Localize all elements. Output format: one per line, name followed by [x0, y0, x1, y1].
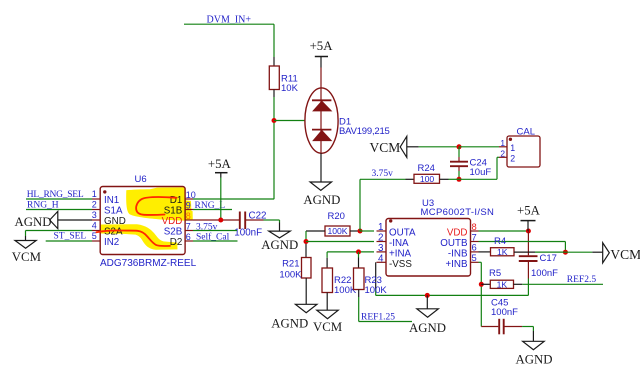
svg-text:GND: GND	[104, 216, 126, 227]
svg-text:+INA: +INA	[389, 248, 412, 259]
svg-text:S1B: S1B	[164, 205, 183, 216]
svg-text:D2: D2	[170, 237, 183, 248]
svg-text:AGND: AGND	[261, 238, 298, 252]
svg-text:-INB: -INB	[448, 248, 468, 259]
svg-text:U6: U6	[135, 174, 147, 185]
svg-text:R20: R20	[328, 211, 345, 222]
svg-text:4: 4	[378, 253, 384, 264]
svg-text:VCM: VCM	[370, 140, 401, 155]
svg-text:100nF: 100nF	[491, 307, 518, 318]
svg-text:1: 1	[510, 143, 515, 153]
svg-text:8: 8	[186, 211, 191, 221]
svg-text:100nF: 100nF	[531, 268, 558, 279]
svg-text:10uF: 10uF	[470, 167, 492, 178]
svg-text:6: 6	[472, 242, 477, 253]
svg-text:VCM: VCM	[313, 320, 342, 334]
svg-text:8: 8	[472, 221, 477, 232]
svg-text:3: 3	[378, 243, 384, 254]
svg-text:2: 2	[500, 149, 505, 159]
svg-text:3: 3	[92, 210, 97, 220]
svg-text:AGND: AGND	[409, 321, 446, 335]
svg-text:1: 1	[92, 189, 97, 199]
svg-text:R5: R5	[489, 268, 501, 279]
svg-text:100K: 100K	[279, 270, 302, 281]
svg-text:2: 2	[378, 233, 383, 244]
svg-text:S2A: S2A	[104, 226, 123, 237]
svg-text:10K: 10K	[281, 83, 299, 94]
svg-text:1: 1	[378, 222, 383, 233]
svg-text:VDD: VDD	[447, 228, 468, 239]
svg-text:REF2.5: REF2.5	[567, 275, 597, 285]
svg-text:-VSS: -VSS	[389, 259, 412, 270]
svg-text:AGND: AGND	[303, 193, 340, 207]
svg-text:BAV199,215: BAV199,215	[339, 126, 390, 137]
svg-text:+5A: +5A	[517, 203, 541, 217]
svg-text:4: 4	[92, 220, 97, 230]
svg-text:IN2: IN2	[104, 237, 119, 248]
svg-text:IN1: IN1	[104, 195, 119, 206]
svg-text:5: 5	[472, 252, 477, 263]
svg-text:1K: 1K	[497, 247, 508, 257]
svg-text:100K: 100K	[365, 285, 388, 296]
svg-text:R4: R4	[494, 236, 506, 247]
svg-text:ST_SEL: ST_SEL	[54, 232, 87, 242]
svg-text:D1: D1	[170, 195, 183, 206]
svg-text:C17: C17	[540, 253, 557, 264]
svg-text:+INB: +INB	[445, 259, 468, 270]
svg-text:VDD: VDD	[162, 216, 183, 227]
svg-text:100: 100	[420, 174, 435, 184]
svg-text:6: 6	[186, 232, 191, 242]
svg-text:VCM: VCM	[12, 250, 41, 264]
svg-text:2: 2	[92, 199, 97, 209]
svg-text:R24: R24	[418, 163, 435, 174]
svg-text:AGND: AGND	[516, 353, 553, 367]
svg-text:3.75v: 3.75v	[372, 169, 394, 179]
svg-text:100K: 100K	[327, 226, 347, 236]
svg-text:+5A: +5A	[310, 39, 334, 53]
svg-text:CAL: CAL	[517, 127, 535, 138]
svg-text:100nF: 100nF	[234, 227, 262, 238]
svg-text:ADG736BRMZ-REEL: ADG736BRMZ-REEL	[100, 258, 197, 269]
svg-text:+5A: +5A	[208, 157, 232, 171]
svg-text:AGND: AGND	[15, 215, 52, 229]
svg-text:R21: R21	[282, 258, 299, 269]
svg-text:AGND: AGND	[271, 316, 308, 330]
svg-text:1: 1	[500, 138, 505, 148]
svg-text:S2B: S2B	[164, 226, 183, 237]
svg-text:VCM: VCM	[610, 247, 640, 262]
svg-text:7: 7	[472, 231, 477, 242]
svg-text:OUTB: OUTB	[440, 238, 468, 249]
svg-text:MCP6002T-I/SN: MCP6002T-I/SN	[421, 207, 495, 218]
svg-text:1K: 1K	[497, 279, 508, 289]
svg-text:7: 7	[186, 221, 191, 231]
svg-text:-INA: -INA	[389, 238, 409, 249]
svg-text:9: 9	[186, 200, 191, 210]
svg-text:2: 2	[510, 154, 515, 164]
svg-text:S1A: S1A	[104, 205, 123, 216]
svg-text:REF1.25: REF1.25	[361, 312, 395, 322]
svg-text:OUTA: OUTA	[389, 228, 416, 239]
